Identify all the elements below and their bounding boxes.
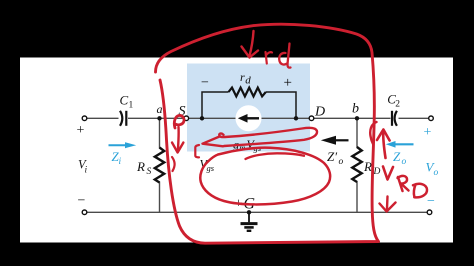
terminal input top [82, 116, 87, 121]
svg-text:Z′: Z′ [327, 149, 337, 164]
red big oval [200, 148, 330, 205]
terminal S [184, 116, 189, 121]
red inner arc of oval [246, 153, 305, 159]
svg-text:1: 1 [129, 101, 134, 111]
svg-text:a: a [157, 102, 163, 116]
svg-text:−: − [201, 76, 209, 91]
red hook on loop right side [370, 122, 376, 144]
svg-text:R: R [136, 159, 145, 174]
wire RD branch stubs [356, 118, 358, 148]
svg-text:D: D [314, 104, 325, 119]
svg-text:S: S [147, 167, 152, 177]
svg-text:i: i [85, 166, 88, 176]
red flat double arrow across gmVgs [219, 128, 317, 146]
svg-text:o: o [402, 157, 407, 167]
current source circle gm*Vgs [236, 105, 262, 131]
arrow Zi cyan [109, 144, 127, 146]
resistor RS zigzag [155, 148, 164, 183]
red down-arrow top (black area) [250, 31, 254, 56]
rd feedback loop wires [202, 92, 296, 118]
terminal output bottom [427, 210, 432, 215]
current source arrow [244, 117, 259, 119]
red letter R [398, 176, 409, 191]
arrow Zo cyan [394, 143, 414, 145]
node b [355, 116, 359, 120]
svg-text:C: C [120, 93, 129, 108]
arrow Z'o [334, 139, 349, 141]
red big loop [156, 24, 379, 243]
svg-text:r: r [240, 70, 245, 84]
red curl on loop left side [172, 157, 175, 171]
resistor rd zigzag [229, 88, 266, 97]
wire bottom rail [87, 211, 428, 213]
svg-text:−: − [78, 194, 86, 209]
node a [157, 116, 161, 120]
red letter D [413, 184, 427, 198]
terminal output top [429, 116, 434, 121]
svg-text:o: o [434, 168, 439, 178]
capacitor C2 plates [392, 111, 397, 126]
svg-text:o: o [339, 157, 344, 167]
svg-text:b: b [352, 101, 359, 116]
resistor RD zigzag [352, 147, 361, 182]
capacitor C1 plates [120, 111, 126, 126]
wire top rail [86, 118, 429, 212]
red letter d (top) [279, 44, 290, 68]
svg-text:gs: gs [207, 163, 215, 173]
svg-text:−: − [427, 194, 435, 209]
white slide area [20, 58, 453, 243]
svg-text:2: 2 [395, 100, 400, 110]
svg-text:R: R [363, 159, 372, 174]
red letter r (top) [266, 52, 273, 64]
svg-text:Z: Z [393, 149, 401, 164]
terminal D [309, 116, 314, 121]
red bracket tick [195, 145, 199, 157]
svg-text:+: + [284, 75, 292, 91]
svg-text:d: d [245, 75, 251, 87]
red annotations [156, 24, 428, 243]
svg-text:i: i [119, 157, 122, 167]
red letter V [383, 167, 393, 180]
ground symbol [241, 212, 258, 231]
red up arrow near RD [383, 131, 385, 159]
svg-text:+: + [77, 123, 85, 138]
svg-text:+: + [424, 125, 432, 140]
red down arrow below S [177, 127, 180, 152]
node left of rd loop [200, 116, 204, 120]
node ground [247, 210, 251, 214]
red down arrow at bottom wire [386, 197, 389, 211]
wire RS branch stubs [159, 118, 161, 148]
blue shaded FET model box [187, 64, 310, 152]
terminal input bottom [82, 210, 87, 215]
node right of rd loop [294, 116, 298, 120]
red loop scribble at S node [174, 115, 184, 128]
